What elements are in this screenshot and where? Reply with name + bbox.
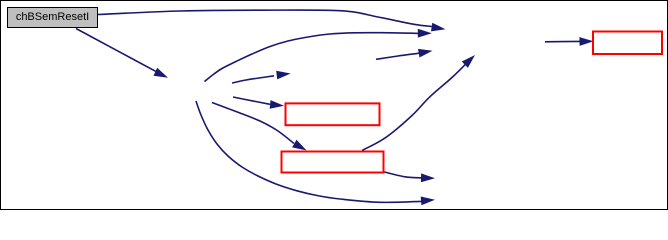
red box R1 truncated node: [286, 103, 380, 125]
wire E1 chBSemResetI right to upper-right node: [98, 10, 433, 27]
wire E3 hub up-curve to node at 432,33: [205, 33, 422, 82]
wire E6 hub to red box R2 top: [212, 103, 294, 144]
arrowhead E1: [431, 23, 446, 32]
arrowhead E9: [421, 173, 435, 182]
wire E9 red box R2 right to node at 435,178: [385, 172, 425, 178]
arrowhead E3: [418, 29, 432, 38]
arrowhead E4: [276, 71, 290, 80]
wire E10 mid node to node at 432,51: [376, 53, 422, 59]
arrowhead E6: [292, 140, 306, 151]
arrowhead E11: [579, 37, 593, 46]
wire E8 red box R2 top diagonal to right hub: [362, 63, 467, 151]
wire E5 hub to red box R1: [233, 97, 270, 104]
arrowhead E8: [462, 55, 475, 68]
red box R3 truncated node: [593, 32, 662, 55]
wire E11 right hub to red box R3: [545, 40, 580, 42]
wire E2 chBSemResetI bottom to hub node: [76, 29, 158, 73]
arrowhead E10: [418, 49, 433, 58]
wire E4 hub to node at 290,74: [232, 76, 274, 83]
arrowhead E5: [270, 100, 284, 109]
node chBSemResetI: [8, 8, 98, 28]
arrowhead E7: [421, 197, 435, 206]
wire E7 hub long swoop to bottom-right node: [196, 101, 424, 202]
red box R2 truncated node: [282, 152, 384, 173]
svg-text:chBSemResetI: chBSemResetI: [16, 11, 89, 23]
arrowhead E2: [154, 68, 169, 78]
